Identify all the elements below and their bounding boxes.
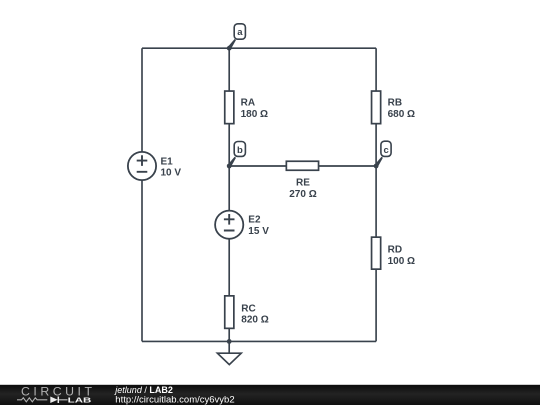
svg-text:RD: RD	[388, 245, 402, 256]
wire bottom rail	[142, 340, 376, 342]
logo resistor zigzag	[17, 398, 47, 402]
node B label	[228, 142, 246, 168]
svg-text:RB: RB	[388, 98, 402, 109]
wire top rail a	[142, 47, 376, 49]
node A label	[228, 24, 246, 50]
svg-text:E2: E2	[248, 215, 261, 226]
svg-text:http://circuitlab.com/cy6vyb2: http://circuitlab.com/cy6vyb2	[115, 394, 234, 405]
wire middle branch	[228, 48, 230, 341]
svg-text:a: a	[237, 27, 243, 38]
svg-text:RA: RA	[241, 98, 255, 109]
svg-text:100 Ω: 100 Ω	[388, 256, 415, 267]
wire left branch	[141, 48, 143, 341]
resistor RB	[372, 91, 416, 124]
svg-text:180 Ω: 180 Ω	[241, 109, 268, 120]
svg-text:680 Ω: 680 Ω	[388, 109, 415, 120]
resistor RD	[372, 237, 416, 269]
svg-text:b: b	[237, 145, 243, 156]
wire right branch	[375, 48, 377, 341]
resistor RA	[225, 91, 268, 124]
resistor RE	[286, 161, 318, 200]
node B junction dot	[227, 164, 232, 169]
svg-text:RE: RE	[296, 178, 310, 189]
svg-text:jetlund / LAB2: jetlund / LAB2	[114, 385, 173, 395]
voltage source E1	[128, 152, 182, 180]
voltage source E2	[215, 211, 269, 239]
svg-text:c: c	[383, 145, 388, 156]
svg-text:LAB: LAB	[68, 396, 92, 405]
svg-text:15 V: 15 V	[248, 226, 269, 237]
ground	[217, 341, 241, 364]
node A junction dot	[227, 46, 232, 51]
resistor RC	[225, 296, 269, 329]
svg-text:RC: RC	[241, 303, 255, 314]
svg-text:10 V: 10 V	[161, 168, 182, 179]
node C label	[375, 141, 392, 167]
svg-text:270 Ω: 270 Ω	[289, 189, 316, 200]
wire node b to node c	[229, 165, 376, 167]
svg-text:E1: E1	[161, 156, 174, 167]
ground junction dot	[227, 339, 232, 344]
node C junction dot	[374, 164, 379, 169]
svg-text:820 Ω: 820 Ω	[241, 315, 268, 326]
logo diode	[50, 397, 57, 404]
